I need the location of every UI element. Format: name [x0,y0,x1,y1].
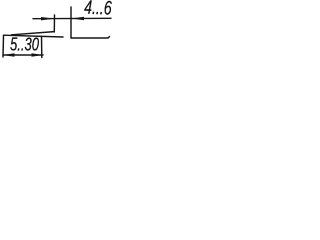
svg-text:5..30: 5..30 [10,35,39,55]
svg-text:4...6: 4...6 [84,0,112,20]
